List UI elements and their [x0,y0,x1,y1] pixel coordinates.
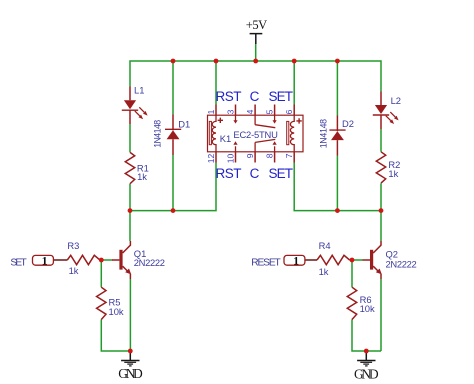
svg-text:1k: 1k [319,266,329,277]
svg-text:L1: L1 [134,85,144,96]
svg-text:2N2222: 2N2222 [386,259,417,270]
svg-text:K1: K1 [220,133,231,144]
svg-text:1: 1 [206,109,216,114]
svg-text:L2: L2 [391,95,401,106]
svg-text:1k: 1k [137,171,147,182]
svg-text:GND: GND [354,366,379,381]
svg-text:RESET: RESET [251,258,280,269]
svg-text:EC2-5TNU: EC2-5TNU [233,129,278,140]
svg-text:1N4148: 1N4148 [319,119,329,148]
svg-text:C: C [250,89,260,104]
svg-text:4: 4 [245,109,255,114]
svg-text:10k: 10k [360,303,375,314]
svg-text:GND: GND [118,366,143,381]
svg-text:12: 12 [206,154,216,164]
svg-text:RST: RST [216,166,242,181]
svg-text:3: 3 [226,109,236,114]
svg-text:1N4148: 1N4148 [152,120,162,148]
svg-text:10: 10 [226,154,236,164]
svg-text:1: 1 [293,255,299,267]
svg-text:+5V: +5V [246,18,267,32]
svg-text:5: 5 [265,109,275,114]
svg-text:C: C [250,166,260,181]
svg-text:9: 9 [245,153,255,158]
svg-text:1k: 1k [69,265,79,276]
svg-text:R3: R3 [67,240,79,251]
svg-text:D1: D1 [178,118,190,129]
svg-text:8: 8 [265,153,275,158]
svg-text:10k: 10k [109,306,124,317]
svg-text:SET: SET [10,258,26,269]
svg-text:6: 6 [284,109,294,114]
svg-text:2N2222: 2N2222 [134,257,165,268]
svg-text:SET: SET [269,89,294,104]
svg-text:7: 7 [284,153,294,158]
svg-text:D2: D2 [342,118,354,129]
svg-text:1: 1 [42,255,48,267]
svg-text:RST: RST [216,89,242,104]
svg-text:SET: SET [269,166,294,181]
svg-text:1k: 1k [388,168,398,179]
svg-text:R4: R4 [319,240,331,251]
